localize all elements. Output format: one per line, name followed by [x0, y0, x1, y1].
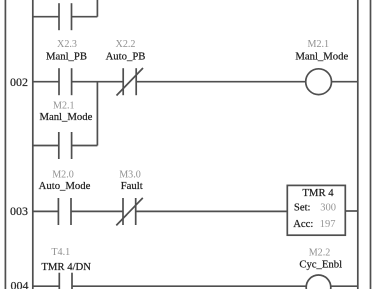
- svg-text:003: 003: [10, 204, 28, 218]
- svg-text:Manl_PB: Manl_PB: [46, 51, 87, 63]
- svg-text:Fault: Fault: [121, 180, 143, 192]
- svg-text:M2.1: M2.1: [53, 100, 75, 111]
- svg-text:300: 300: [320, 203, 336, 214]
- svg-text:TMR 4/DN: TMR 4/DN: [41, 261, 91, 273]
- svg-text:Auto_Mode: Auto_Mode: [39, 180, 91, 192]
- svg-text:M2.2: M2.2: [309, 248, 331, 259]
- svg-text:Manl_Mode: Manl_Mode: [295, 51, 348, 63]
- svg-text:Set:: Set:: [294, 202, 311, 214]
- svg-text:Auto_PB: Auto_PB: [106, 51, 146, 63]
- svg-text:Manl_Mode: Manl_Mode: [39, 111, 92, 123]
- svg-text:X2.3: X2.3: [57, 39, 77, 50]
- svg-text:T4.1: T4.1: [51, 247, 70, 258]
- svg-text:X2.2: X2.2: [116, 39, 136, 50]
- svg-text:197: 197: [320, 219, 336, 230]
- svg-text:Cyc_Enbl: Cyc_Enbl: [299, 258, 342, 270]
- svg-text:M2.1: M2.1: [308, 39, 330, 50]
- svg-text:Acc:: Acc:: [293, 218, 313, 230]
- svg-text:TMR 4: TMR 4: [302, 187, 334, 199]
- svg-text:002: 002: [10, 75, 28, 89]
- svg-text:004: 004: [11, 279, 29, 289]
